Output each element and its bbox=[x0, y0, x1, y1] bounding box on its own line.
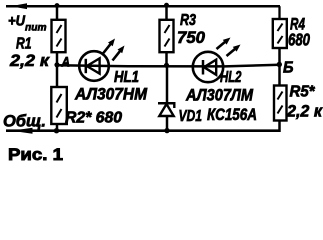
wire node B to R5 bbox=[278, 65, 281, 86]
zener VD1 bbox=[158, 65, 176, 131]
resistor R2 bbox=[51, 87, 67, 124]
Obshch arrow head bbox=[12, 128, 33, 134]
svg-text:КС156А: КС156А bbox=[207, 106, 257, 124]
resistor R4 bbox=[273, 19, 287, 48]
node B bbox=[277, 62, 282, 67]
wire R4 bottom to node B bbox=[278, 48, 281, 65]
svg-text:АЛ307НМ: АЛ307НМ bbox=[74, 86, 148, 104]
svg-text:АЛ307ЛМ: АЛ307ЛМ bbox=[185, 87, 254, 105]
wire R1 bottom to node A bbox=[56, 52, 59, 66]
svg-text:R5*: R5* bbox=[290, 84, 316, 101]
wire R5 bottom corner bbox=[272, 121, 280, 131]
HL1 emission arrows bbox=[103, 39, 125, 61]
resistor R5 bbox=[274, 86, 287, 121]
node VD1 bottom junction bbox=[164, 128, 169, 133]
wire R2: node A down bbox=[56, 65, 59, 87]
svg-text:2,2 к: 2,2 к bbox=[286, 102, 323, 121]
svg-text:Рис. 1: Рис. 1 bbox=[8, 145, 63, 164]
LED HL1 bbox=[79, 51, 109, 81]
+Upit arrow head bbox=[11, 3, 28, 9]
svg-text:HL2: HL2 bbox=[220, 69, 242, 86]
resistor R3 bbox=[160, 20, 174, 52]
svg-text:R3: R3 bbox=[180, 12, 196, 29]
node R3 top junction bbox=[164, 3, 169, 8]
svg-text:Б: Б bbox=[283, 60, 294, 77]
svg-text:HL1: HL1 bbox=[114, 69, 139, 86]
LED HL2 bbox=[193, 52, 223, 82]
svg-text:+U: +U bbox=[8, 14, 25, 30]
resistor R1 bbox=[52, 20, 66, 52]
svg-text:А: А bbox=[61, 55, 70, 70]
svg-text:VD1: VD1 bbox=[179, 108, 203, 125]
wire bottom rail bbox=[6, 129, 280, 132]
wire top rail bbox=[6, 5, 280, 8]
wire R3 top stub bbox=[165, 6, 168, 20]
wire middle rail bbox=[57, 65, 280, 67]
wire R1 top stub bbox=[56, 6, 59, 20]
svg-text:R2* 680: R2* 680 bbox=[65, 110, 122, 127]
svg-text:750: 750 bbox=[177, 28, 206, 47]
svg-text:пит: пит bbox=[25, 22, 47, 34]
svg-text:680: 680 bbox=[288, 30, 310, 50]
svg-text:2,2 к: 2,2 к bbox=[9, 51, 51, 70]
node R2 bottom junction bbox=[54, 128, 59, 133]
node A bbox=[54, 62, 59, 67]
HL2 emission arrows bbox=[217, 38, 241, 57]
node R1 top junction bbox=[55, 3, 60, 8]
wire R3 bottom to mid node bbox=[165, 52, 168, 66]
wire top-right corner down to R4 bbox=[278, 6, 280, 20]
svg-text:Общ.: Общ. bbox=[3, 113, 46, 131]
wire R2 bottom stub bbox=[56, 124, 59, 131]
node R3/VD1 bbox=[164, 63, 169, 68]
svg-text:R1: R1 bbox=[16, 36, 32, 53]
